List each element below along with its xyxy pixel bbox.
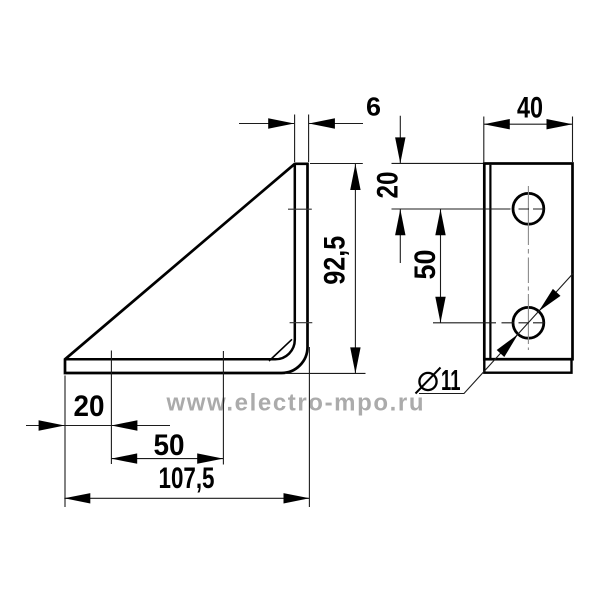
dimension 92,5: extension lines [285, 164, 366, 374]
dimension 40: left arrow [484, 119, 510, 129]
bottom dimension 20: extension lines [65, 351, 111, 508]
hole diameter leader line [419, 274, 573, 394]
right dimension 50: top arrow [435, 209, 445, 235]
left view: hole 1 centre tick on vertical leg [288, 208, 312, 210]
svg-text:50: 50 [154, 429, 185, 462]
svg-text:20: 20 [372, 172, 405, 199]
bottom dimension 107,5: dimension line [64, 497, 309, 499]
right dimension 50: dimension line [440, 209, 442, 322]
left view: bracket outline [65, 164, 308, 373]
dimension 40: extension lines [484, 117, 573, 163]
dimension 6: dimension line [239, 123, 363, 125]
left view: inner edge with bend fillet [65, 164, 295, 359]
svg-text:40: 40 [517, 92, 543, 125]
right view: hole 2 [513, 307, 544, 338]
right dimension 50: bottom arrow [435, 297, 445, 323]
bottom dimension 20: right arrow [111, 420, 137, 430]
svg-text:20: 20 [74, 390, 105, 423]
dimension 40: dimension line [484, 123, 573, 125]
hole 2 horizontal centre line [433, 322, 545, 324]
svg-text:92,5: 92,5 [319, 236, 352, 285]
dimension 92,5: bottom arrow [350, 347, 360, 373]
bottom dimension 20: left arrow [39, 420, 65, 430]
bottom dimension 50: extension line right [222, 351, 224, 465]
leader upper arrow [539, 289, 561, 311]
bottom dimension 107,5: left arrow [64, 493, 90, 503]
bottom dimension 50: dimension line [111, 458, 223, 460]
bottom dimension 107,5: extension line right [308, 347, 310, 507]
right view: bend line [489, 165, 491, 359]
left view: hole 2 centre tick on vertical leg [290, 322, 313, 324]
leader lower arrow [497, 334, 518, 357]
right dimension 20: top arrow [395, 137, 405, 163]
dimension 6: left arrow [268, 118, 294, 128]
svg-text:11: 11 [441, 365, 461, 397]
svg-text:50: 50 [409, 250, 442, 280]
bottom dimension 20: dimension line [26, 425, 170, 427]
dimension 92,5: dimension line [354, 164, 356, 373]
svg-text:www.electro-mpo.ru: www.electro-mpo.ru [166, 390, 424, 417]
right dimension 20: extension line (top of plate) [392, 162, 484, 164]
svg-text:107,5: 107,5 [159, 462, 215, 495]
dimension 92,5: top arrow [350, 164, 360, 190]
svg-text:6: 6 [366, 92, 381, 122]
bottom dimension 50: left arrow [111, 453, 137, 463]
vertical centre line through holes [527, 186, 529, 350]
hole 1 horizontal centre line [392, 208, 545, 210]
dimension 40: right arrow [547, 119, 573, 129]
bottom dimension 50: right arrow [197, 453, 223, 463]
right view: face plate outline [484, 164, 572, 360]
dimension 6: right arrow [309, 118, 335, 128]
bottom dimension 107,5: right arrow [284, 493, 310, 503]
right dimension 20: bottom arrow [395, 209, 405, 235]
right view: bottom flange strip [484, 359, 571, 373]
right dimension 20: dimension line [399, 116, 401, 263]
right view: hole 1 [513, 193, 544, 224]
diameter symbol [416, 368, 441, 394]
dimension 6: extension lines [295, 115, 309, 163]
left view: rib corner chamfer line [269, 339, 292, 361]
